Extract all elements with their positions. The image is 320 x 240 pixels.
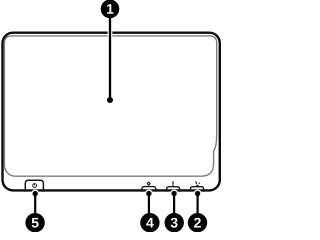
callout 5 circle <box>25 213 44 232</box>
double feed detection skip icon <box>195 181 200 186</box>
slow mode button <box>167 187 180 192</box>
callout 3 circle <box>165 213 184 232</box>
callout 2 leader line <box>197 194 199 215</box>
double feed detection skip button <box>191 187 204 192</box>
callout 3 leader line <box>173 194 175 215</box>
device top-surface inner edge <box>4 36 216 176</box>
callout 2 endpoint dot halo <box>194 190 202 198</box>
settings button <box>142 187 156 192</box>
callout 4 endpoint dot halo <box>145 190 153 198</box>
callout 5 endpoint dot halo <box>31 190 39 198</box>
callout 4 leader line <box>148 194 150 215</box>
callout 4 circle <box>140 213 159 232</box>
callout 1 leader line white casing <box>108 18 113 101</box>
power button <box>25 180 43 192</box>
callout 4 endpoint dot <box>146 191 151 196</box>
callout 1 circle <box>101 0 120 18</box>
callout 5 leader line <box>34 194 36 214</box>
power icon <box>33 183 37 188</box>
callout 1 leader line <box>109 18 111 101</box>
slow mode icon <box>172 181 173 186</box>
callout 1 endpoint dot on touchscreen <box>107 97 113 103</box>
callout 5 endpoint dot <box>33 191 38 196</box>
settings gear icon <box>147 182 151 186</box>
callout 2 circle <box>188 213 207 232</box>
device body outline <box>3 33 220 191</box>
callout 3 endpoint dot halo <box>170 190 178 198</box>
callout 3 endpoint dot <box>171 191 176 196</box>
callout 2 endpoint dot <box>195 191 200 196</box>
